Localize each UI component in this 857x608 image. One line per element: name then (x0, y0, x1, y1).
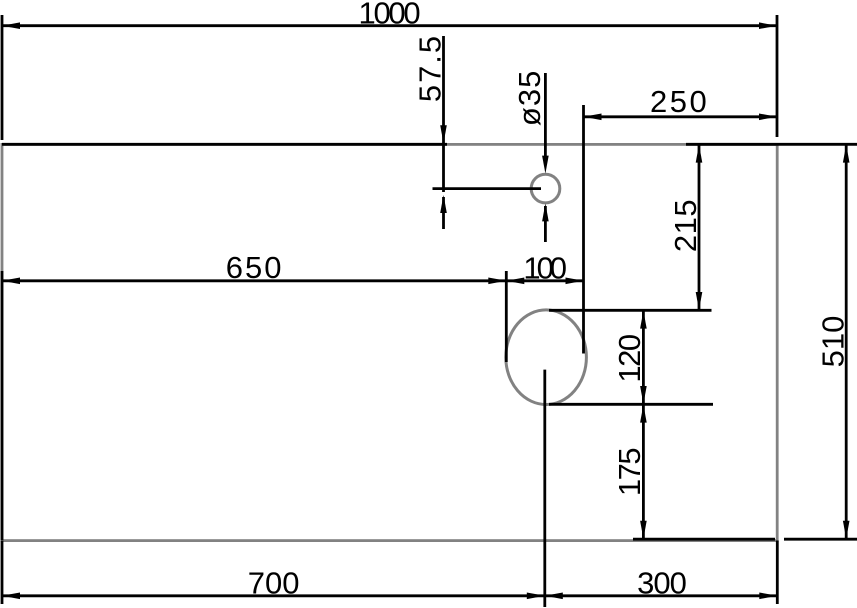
ref line 120 bottom / 175 top (549, 403, 713, 406)
dim line 57.5 (442, 36, 445, 192)
arrow 510 up (843, 145, 850, 163)
dim line 510 (845, 144, 848, 539)
left edge black overlay ext 650 (1, 271, 4, 540)
svg-text:250: 250 (650, 84, 709, 119)
arrow 700 right (527, 593, 545, 600)
dim line 120 (642, 310, 645, 404)
svg-text:215: 215 (668, 199, 703, 252)
arrow 300 left (545, 593, 563, 600)
bottom edge black overlay ref 175 (633, 538, 775, 541)
faucet hole center ref line 57.5 (433, 187, 542, 190)
arrow 510 down (843, 521, 850, 539)
top edge black overlay ref 215/510 (686, 143, 857, 146)
svg-text:57.5: 57.5 (412, 34, 447, 102)
arrow 215 down (696, 292, 703, 310)
svg-text:ø35: ø35 (512, 70, 547, 126)
ext line 700 left (1, 541, 4, 605)
arrow 100 right (566, 278, 584, 285)
arrow 57.5 up (440, 195, 447, 213)
ext line 650 right / 100 left (505, 271, 508, 362)
arrow 57.5 down (440, 125, 447, 143)
dim line ø35 lower (544, 206, 547, 242)
dim line 700 and 300 (2, 594, 777, 597)
top edge black overlay ref 57.5 (2, 143, 447, 146)
dim line 1000 (2, 24, 777, 27)
ref line 215 bottom / 120 top (549, 309, 712, 312)
arrow 100 left (506, 278, 524, 285)
arrow ø35 up (542, 203, 549, 221)
washbasin outline rect 1000x510 (2, 144, 777, 540)
arrow 175 up (640, 405, 647, 423)
arrow ø35 down (542, 156, 549, 174)
arrow 1000 left (2, 22, 20, 29)
ext line 250 left / 100 right (582, 105, 585, 354)
svg-text:700: 700 (248, 566, 300, 601)
svg-text:650: 650 (226, 250, 284, 285)
dim line ø35 upper (544, 73, 547, 162)
drain center line (543, 370, 546, 607)
arrow 650 left (2, 278, 20, 285)
svg-text:1000: 1000 (359, 0, 421, 30)
svg-text:510: 510 (815, 316, 850, 368)
arrow 120 up (640, 311, 647, 329)
arrow 215 up (696, 145, 703, 163)
svg-text:300: 300 (637, 566, 686, 601)
arrow 650 right (488, 278, 506, 285)
ext line 1000/250 right (776, 15, 779, 137)
arrow 700 left (2, 593, 20, 600)
drain hole oval (506, 310, 587, 405)
dim line 57.5 lower arrow stem (442, 197, 445, 229)
bottom right ext 510 (784, 538, 857, 541)
arrow 250 right (759, 114, 777, 121)
dim line 250 (584, 115, 778, 118)
ext line 300 right (776, 541, 779, 605)
arrow 175 down (640, 521, 647, 539)
svg-text:100: 100 (523, 250, 566, 285)
arrow 250 left (584, 114, 602, 121)
ext line 1000 left (1, 15, 4, 140)
dim line 175 (642, 404, 645, 539)
arrow 300 right (759, 593, 777, 600)
dim line 215 (698, 144, 701, 310)
arrow 1000 right (759, 22, 777, 29)
arrow 120 down (640, 386, 647, 404)
dim line 650 and 100 (2, 279, 584, 282)
faucet hole circle ø35 (531, 174, 560, 203)
svg-text:175: 175 (612, 449, 647, 496)
svg-text:120: 120 (612, 334, 647, 382)
